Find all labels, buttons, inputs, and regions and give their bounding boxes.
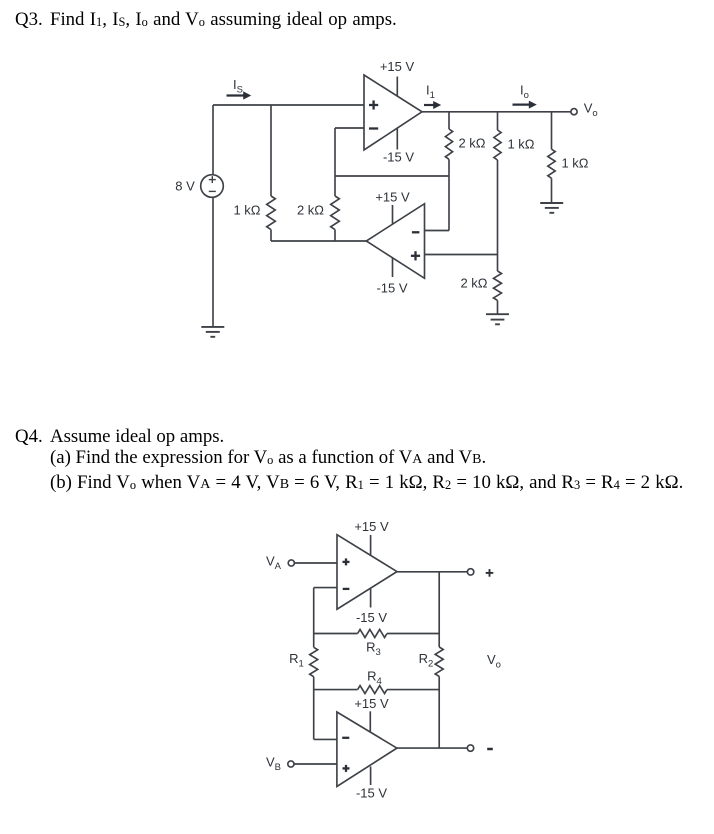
svg-text:-15 V: -15 V [356,786,387,801]
svg-text:R4: R4 [367,669,382,688]
svg-text:+15 V: +15 V [380,59,415,74]
svg-text:VB: VB [266,755,281,774]
svg-text:Io: Io [520,82,529,101]
svg-text:2 kΩ: 2 kΩ [460,276,487,291]
svg-text:-15 V: -15 V [383,150,414,165]
svg-text:-15 V: -15 V [376,281,407,296]
svg-text:8 V: 8 V [175,179,195,194]
svg-text:Vo: Vo [487,652,501,671]
svg-text:R1: R1 [289,651,304,670]
svg-text:I1: I1 [426,82,435,101]
svg-text:IS: IS [233,77,243,96]
svg-text:+15 V: +15 V [354,696,389,711]
svg-text:2 kΩ: 2 kΩ [297,202,324,217]
svg-text:1 kΩ: 1 kΩ [233,202,260,217]
svg-text:1 kΩ: 1 kΩ [507,137,534,152]
svg-text:1 kΩ: 1 kΩ [561,156,588,171]
svg-text:R2: R2 [419,651,434,670]
svg-text:Vo: Vo [584,101,598,120]
svg-text:-15 V: -15 V [356,610,387,625]
svg-text:VA: VA [266,554,282,573]
svg-text:R3: R3 [366,639,381,658]
svg-text:+15 V: +15 V [354,519,389,534]
svg-text:2 kΩ: 2 kΩ [458,136,485,151]
svg-text:+15 V: +15 V [375,190,410,205]
